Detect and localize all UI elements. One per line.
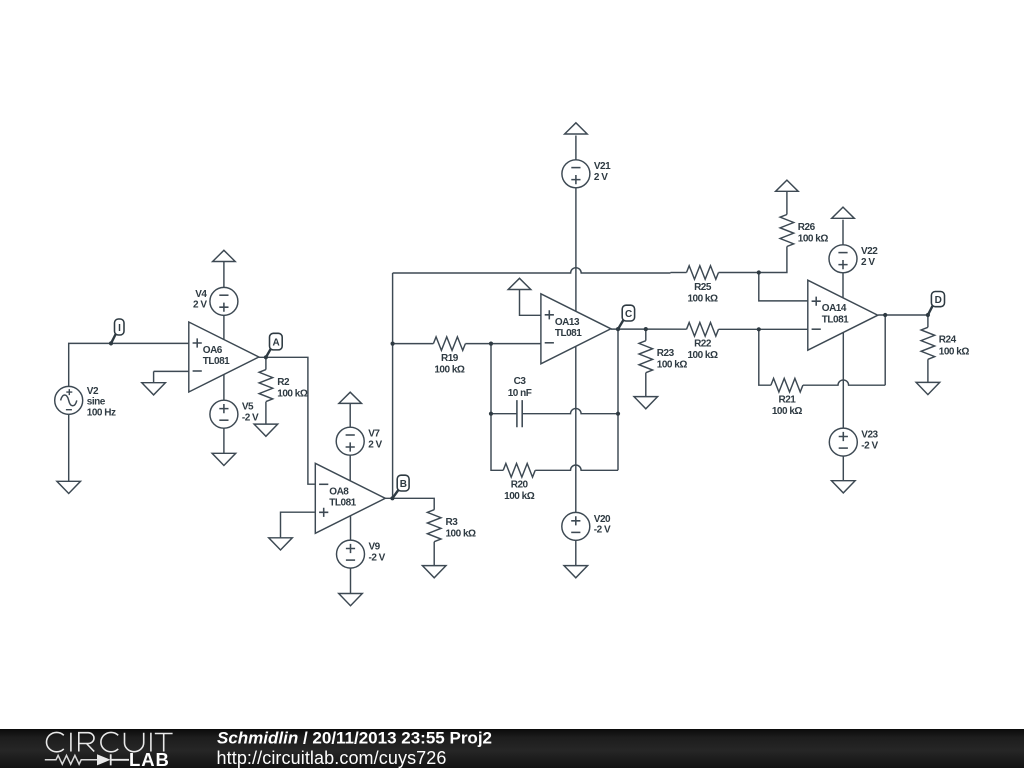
svg-text:-2 V: -2 V bbox=[594, 525, 611, 536]
wire OA14 - input down to R21 bbox=[759, 329, 771, 385]
svg-text:R3: R3 bbox=[446, 517, 459, 528]
ground under V2 bbox=[57, 481, 81, 493]
junction node A bbox=[264, 355, 268, 359]
power arrow above V4 bbox=[213, 250, 236, 261]
svg-text:100 kΩ: 100 kΩ bbox=[504, 491, 535, 502]
node C flag bbox=[618, 305, 635, 329]
wire power arrow to V21 bbox=[575, 136, 577, 160]
wire C3 right plate to feedback (hops over V- lead) bbox=[522, 408, 618, 413]
svg-text:100 kΩ: 100 kΩ bbox=[772, 406, 803, 417]
svg-text:V21: V21 bbox=[594, 161, 611, 172]
wire R3 to ground bbox=[433, 542, 435, 566]
wire feedback left leg to R20 bbox=[491, 344, 503, 471]
wire power arrow to V7 bbox=[349, 403, 351, 427]
wire R25 junction to R26 bbox=[719, 247, 787, 273]
wire OA13 output feedback right leg bbox=[617, 329, 619, 470]
wire bus into R25 bbox=[671, 272, 687, 274]
svg-text:R22: R22 bbox=[694, 339, 712, 350]
svg-text:TL081: TL081 bbox=[329, 498, 356, 509]
ground under V23 bbox=[832, 481, 856, 493]
svg-text:2 V: 2 V bbox=[368, 439, 382, 450]
power arrow above V21 bbox=[565, 123, 588, 134]
wire node C to R22 bbox=[611, 328, 687, 330]
voltage source V21 (2 V) bbox=[562, 160, 611, 188]
svg-text:V20: V20 bbox=[594, 514, 611, 525]
resistor R24 (100 k) bbox=[921, 327, 969, 359]
wire node B to R3 bbox=[385, 498, 434, 509]
wire V7 to OA8 V+ pin bbox=[349, 455, 351, 481]
wire bus tap to R19 bbox=[393, 343, 434, 345]
wire node D to R24 bbox=[927, 315, 929, 327]
svg-text:-2 V: -2 V bbox=[242, 412, 259, 423]
wire to C3 left plate bbox=[491, 413, 517, 415]
wire R21 right leg up to output bbox=[884, 315, 886, 385]
wire V2 to ground bbox=[68, 414, 70, 481]
svg-text:TL081: TL081 bbox=[203, 356, 230, 367]
wire node B up to bus corner bbox=[392, 273, 394, 498]
wire OA8 V- pin to V9 bbox=[350, 516, 352, 540]
node I flag bbox=[111, 319, 124, 343]
wire OA6 - input bbox=[154, 370, 189, 372]
wire R26 to power arrow bbox=[786, 192, 788, 215]
svg-text:R20: R20 bbox=[511, 480, 529, 491]
svg-text:A: A bbox=[272, 338, 279, 349]
wire R2 to ground bbox=[265, 402, 267, 424]
wire V20 to ground bbox=[575, 540, 577, 565]
voltage source V2 (sine) bbox=[55, 386, 116, 419]
wire R21 to output leg (hops over V- lead) bbox=[803, 380, 885, 385]
ground at OA6 - input bbox=[142, 383, 166, 395]
power arrow above V22 bbox=[832, 207, 855, 218]
svg-text:C: C bbox=[625, 309, 632, 320]
node D flag bbox=[928, 292, 945, 316]
wire OA8 + input to ground bbox=[281, 512, 316, 538]
svg-text:100 kΩ: 100 kΩ bbox=[687, 293, 718, 304]
svg-text:TL081: TL081 bbox=[555, 328, 582, 339]
wire R24 to ground bbox=[927, 359, 929, 382]
svg-text:R19: R19 bbox=[441, 353, 459, 364]
resistor R22 (100 k) bbox=[687, 323, 719, 362]
ground under V5 bbox=[212, 453, 236, 465]
svg-text:100 kΩ: 100 kΩ bbox=[446, 529, 477, 540]
svg-text:100 kΩ: 100 kΩ bbox=[277, 389, 308, 400]
wire node A to R2 bbox=[265, 357, 267, 369]
node B flag bbox=[392, 475, 409, 498]
wire node C to R23 bbox=[645, 329, 647, 341]
wire V9 to ground bbox=[350, 568, 352, 593]
svg-text:sine: sine bbox=[87, 397, 106, 408]
svg-text:100 kΩ: 100 kΩ bbox=[434, 365, 465, 376]
wire node A to OA8 - input bbox=[258, 357, 315, 484]
wire OA14 V- pin to V23 bbox=[842, 333, 844, 428]
wire R20 to feedback right leg (hops over V- lead) bbox=[535, 465, 618, 470]
svg-text:100 kΩ: 100 kΩ bbox=[798, 234, 829, 245]
wire V2 to OA6 + input (node I) bbox=[69, 343, 189, 386]
svg-text:10 nF: 10 nF bbox=[508, 388, 532, 399]
svg-text:V22: V22 bbox=[861, 246, 878, 257]
voltage source V23 (-2 V) bbox=[829, 428, 878, 456]
svg-text:V2: V2 bbox=[87, 386, 99, 397]
wire OA6 V- pin to V5 bbox=[223, 374, 225, 400]
svg-text:OA13: OA13 bbox=[555, 317, 580, 328]
footer overlay: CircuitLab logo + text bbox=[0, 722, 1024, 768]
junction R19 right / feedback bbox=[489, 342, 493, 346]
junction R23 top bbox=[644, 327, 648, 331]
resistor R3 (100 k) bbox=[427, 510, 476, 542]
junction node B bbox=[390, 496, 394, 500]
junction R19 left bbox=[391, 342, 395, 346]
junction C3 left bbox=[489, 412, 493, 416]
capacitor C3 (10 nF) bbox=[508, 376, 532, 427]
junction node I bbox=[109, 341, 113, 345]
ground under R2 bbox=[254, 424, 278, 436]
op-amp OA8 (TL081) bbox=[315, 463, 385, 533]
wire V5 to ground bbox=[223, 428, 225, 453]
ground under V9 bbox=[339, 594, 363, 606]
junction node C bbox=[616, 327, 620, 331]
wire bus to R25 (hops over V21 lead) bbox=[393, 268, 671, 273]
svg-text:R26: R26 bbox=[798, 222, 816, 233]
svg-text:R2: R2 bbox=[277, 377, 290, 388]
svg-text:B: B bbox=[400, 479, 407, 490]
resistor R23 (100 k) bbox=[639, 341, 687, 373]
voltage source V9 (-2 V) bbox=[337, 540, 386, 568]
resistor R26 (100 k) bbox=[780, 215, 828, 247]
wire V22 to OA14 V+ pin bbox=[842, 273, 844, 298]
svg-text:TL081: TL081 bbox=[822, 314, 849, 325]
resistor R2 (100 k) bbox=[259, 370, 308, 402]
wire V23 to ground bbox=[842, 456, 844, 481]
voltage source V7 (2 V) bbox=[336, 427, 382, 455]
power arrow at OA13 + input bbox=[508, 278, 531, 289]
junction node D bbox=[926, 313, 930, 317]
svg-text:LAB: LAB bbox=[129, 749, 170, 768]
ground under R24 bbox=[916, 382, 940, 394]
junction R22 / R21 bbox=[757, 327, 761, 331]
wire V21 to OA13 V+ pin bbox=[575, 188, 577, 311]
voltage source V22 (2 V) bbox=[829, 245, 878, 273]
junction C3 right bbox=[616, 412, 620, 416]
power arrow above V7 bbox=[339, 392, 362, 403]
svg-text:OA6: OA6 bbox=[203, 345, 223, 356]
wire V4 to OA6 V+ pin bbox=[223, 315, 225, 340]
op-amp OA6 (TL081) bbox=[189, 322, 259, 392]
ground under V20 bbox=[564, 566, 588, 578]
svg-text:100 Hz: 100 Hz bbox=[87, 407, 116, 418]
svg-text:2 V: 2 V bbox=[861, 257, 875, 268]
wire power arrow to V22 bbox=[842, 220, 844, 245]
power arrow above R26 bbox=[776, 180, 799, 191]
svg-text:OA8: OA8 bbox=[329, 486, 349, 497]
node A flag bbox=[266, 333, 282, 357]
wire R22 to OA14 - input bbox=[719, 328, 808, 330]
wire power arrow to V4 bbox=[223, 261, 225, 287]
svg-text:100 kΩ: 100 kΩ bbox=[687, 350, 718, 361]
wire power arrow to OA13 + input bbox=[520, 290, 541, 316]
svg-text:R23: R23 bbox=[657, 348, 675, 359]
svg-text:D: D bbox=[935, 295, 942, 306]
ground under R23 bbox=[634, 397, 658, 409]
voltage source V4 (2 V) bbox=[193, 287, 238, 315]
wire R19 to OA13 - input bbox=[465, 343, 541, 345]
svg-text:2 V: 2 V bbox=[193, 300, 207, 311]
svg-text:Schmidlin / 20/11/2013 23:55 P: Schmidlin / 20/11/2013 23:55 Proj2 bbox=[217, 729, 492, 748]
svg-text:-2 V: -2 V bbox=[861, 440, 878, 451]
wire OA13 V- pin to V20 bbox=[575, 346, 577, 512]
svg-text:100 kΩ: 100 kΩ bbox=[939, 346, 970, 357]
wire R25 junction to OA14 + input bbox=[759, 273, 808, 301]
ground at OA8 + input bbox=[269, 538, 293, 550]
resistor R25 (100 k) bbox=[687, 266, 719, 305]
svg-text:V23: V23 bbox=[861, 430, 878, 441]
svg-text:R24: R24 bbox=[939, 335, 957, 346]
svg-text:V5: V5 bbox=[242, 402, 254, 413]
svg-text:V9: V9 bbox=[369, 542, 381, 553]
resistor R19 (100 k) bbox=[433, 337, 465, 376]
svg-text:100 kΩ: 100 kΩ bbox=[657, 360, 688, 371]
op-amp OA14 (TL081) bbox=[808, 280, 878, 350]
op-amp OA13 (TL081) bbox=[541, 294, 611, 364]
voltage source V20 (-2 V) bbox=[562, 512, 611, 540]
voltage source V5 (-2 V) bbox=[210, 400, 259, 428]
ground under R3 bbox=[422, 566, 446, 578]
svg-text:http://circuitlab.com/cuys726: http://circuitlab.com/cuys726 bbox=[217, 748, 447, 768]
CircuitLab logo wordmark CIRCUIT (drawn thin) bbox=[46, 732, 172, 751]
CircuitLab logo resistor-diode glyph bbox=[45, 755, 97, 764]
wire to ground OA6 - input bbox=[153, 371, 155, 382]
resistor R20 (100 k) bbox=[503, 464, 535, 503]
svg-text:R21: R21 bbox=[778, 395, 796, 406]
svg-text:V4: V4 bbox=[195, 289, 207, 300]
wire R23 to ground bbox=[645, 373, 647, 397]
resistor R21 (100 k) bbox=[771, 378, 803, 417]
svg-text:2 V: 2 V bbox=[594, 172, 608, 183]
junction R25 / OA14 + input bbox=[757, 270, 761, 274]
svg-text:OA14: OA14 bbox=[822, 303, 847, 314]
wire OA14 output to node D bbox=[878, 314, 928, 316]
svg-text:-2 V: -2 V bbox=[369, 552, 386, 563]
junction OA14 output bbox=[883, 313, 887, 317]
svg-text:R25: R25 bbox=[694, 282, 712, 293]
svg-text:C3: C3 bbox=[514, 376, 527, 387]
svg-text:V7: V7 bbox=[368, 429, 380, 440]
